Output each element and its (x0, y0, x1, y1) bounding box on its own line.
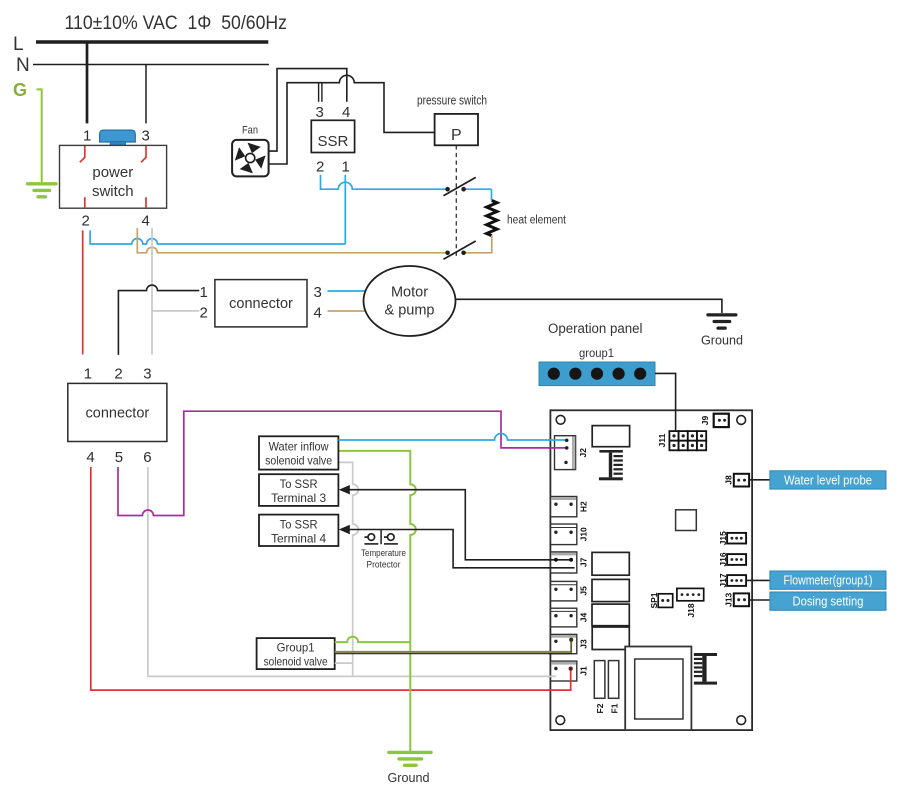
wire tail: blue into J2 pin 1 (549, 439, 567, 441)
svg-text:6: 6 (143, 449, 151, 466)
wire: L drop to power switch pin 1 (86, 42, 89, 123)
relay K1 (592, 426, 629, 447)
wire: G green drop to ground (37, 89, 42, 182)
pressure switch P body (435, 114, 478, 145)
svg-text:2: 2 (200, 304, 208, 321)
wire: fan upper terminal to SSR pin 4 loop (269, 69, 347, 152)
connector H2 (551, 497, 589, 517)
fan M1 (232, 140, 269, 177)
svg-text:4: 4 (314, 304, 322, 321)
svg-text:Water inflow: Water inflow (269, 440, 329, 454)
power switch S1 body (60, 145, 167, 208)
svg-text:Flowmeter(group1): Flowmeter(group1) (784, 574, 873, 588)
svg-text:J1: J1 (579, 666, 589, 676)
svg-text:heat element: heat element (507, 215, 567, 227)
svg-text:1: 1 (83, 128, 91, 145)
connector J5 (551, 581, 589, 601)
svg-text:J8: J8 (723, 475, 733, 485)
wire tail: black group1 header into J11 (675, 410, 677, 432)
arrow into To SSR terminal 4 (339, 525, 350, 534)
wire tail: red into J1 pin 2 (549, 669, 571, 691)
svg-text:1: 1 (200, 284, 208, 301)
wire: tan from power switch pin 4 to heat element switch (hops gray) (137, 228, 447, 253)
svg-text:F2: F2 (595, 703, 605, 713)
svg-text:connector: connector (229, 296, 293, 312)
svg-text:2: 2 (114, 366, 122, 383)
wire: olive from group1 valve to J3 (335, 651, 572, 653)
mounting hole top-right (737, 416, 746, 425)
svg-text:To SSR: To SSR (280, 477, 318, 491)
svg-text:Ground: Ground (701, 334, 743, 348)
svg-text:Temperature: Temperature (361, 548, 406, 559)
wire: blue from water inflow valve to J2 pin1 (hops purple) (338, 434, 556, 441)
pressure contact 2 (on tan wire) (444, 241, 476, 259)
svg-text:P: P (451, 127, 462, 144)
group1 solenoid valve box (257, 638, 335, 669)
wire: blue from power switch pin 2 to SSR pin 1 (hops tan and gray) (90, 230, 345, 244)
svg-text:3: 3 (314, 284, 322, 301)
svg-text:2: 2 (82, 213, 90, 230)
power switch rocker actuator (blue) (100, 130, 136, 146)
svg-text:Motor: Motor (391, 285, 428, 301)
connector J4 (551, 608, 589, 627)
transformer T1 (625, 647, 691, 731)
connector J18 (677, 588, 704, 617)
svg-text:J11: J11 (657, 433, 667, 447)
water level probe label box (770, 471, 886, 489)
svg-text:Protector: Protector (367, 560, 401, 571)
wire: blue connector pin3 to motor (328, 290, 367, 292)
svg-text:To SSR: To SSR (280, 518, 318, 532)
svg-text:F1: F1 (609, 703, 619, 713)
wire: blue SSR pin 2 to pressure switch contact (hop over pin1 wire) (321, 175, 448, 190)
heatsink (top) (599, 450, 623, 480)
wire: J8 to water level probe label (749, 479, 770, 481)
wire: gray from connector pin 6 to PCB J1 (148, 467, 556, 676)
wire: tan from heat element bottom to contact 2 (464, 235, 492, 253)
svg-text:solenoid valve: solenoid valve (265, 454, 332, 468)
operation panel PCB outline (550, 410, 752, 730)
ground symbol (left, green) (28, 184, 57, 197)
connector J8 (723, 474, 749, 487)
svg-text:Operation panel: Operation panel (548, 321, 643, 336)
wire: gray from water inflow valve down to J1 gray bus (hops black wires) (338, 462, 358, 676)
heatsink (bottom) (694, 653, 717, 685)
relay K4 (592, 604, 629, 626)
wire: L bus (36, 40, 268, 44)
wire: blue down to heat element (491, 189, 493, 200)
connector J7 (551, 552, 589, 573)
flowmeter(group1) label box (770, 571, 886, 589)
to SSR terminal 4 box (259, 515, 338, 546)
heat element R1 (487, 201, 497, 236)
to SSR terminal 3 box (259, 474, 338, 506)
wire: gray stub group1 valve to gray bus (335, 662, 353, 664)
IC U2 (676, 510, 697, 531)
svg-text:3: 3 (142, 128, 150, 145)
relay K2 (592, 552, 629, 575)
power switch contact marks (red) (80, 146, 146, 208)
ground symbol (bottom, green) (389, 752, 431, 765)
wire tail: black into J7 pin 1 (549, 559, 572, 561)
connector (6-pin) body (68, 383, 167, 441)
svg-text:pressure switch: pressure switch (417, 94, 487, 108)
wire: black to SSR terminal 4 from J7 (349, 530, 575, 568)
svg-text:SP1: SP1 (649, 592, 659, 608)
svg-text:J18: J18 (686, 603, 696, 617)
svg-text:2: 2 (316, 159, 324, 176)
svg-text:Dosing setting: Dosing setting (793, 595, 864, 609)
svg-text:SSR: SSR (317, 133, 348, 150)
svg-text:connector: connector (86, 406, 150, 422)
svg-text:J3: J3 (579, 639, 589, 649)
svg-text:3: 3 (316, 104, 324, 121)
connector J15 (718, 531, 746, 545)
wire: black connector pin1 loop (hops gray) (118, 285, 199, 355)
wire: N drop to power switch pin 3 (145, 65, 147, 124)
wire: green from group1 valve to ground wire (hops gray) (335, 637, 411, 642)
svg-text:4: 4 (142, 213, 150, 230)
mounting hole bottom-right (737, 716, 746, 725)
temperature protector TP1 (361, 530, 406, 571)
svg-text:group1: group1 (579, 346, 614, 360)
svg-text:& pump: & pump (385, 303, 435, 319)
svg-text:Water level probe: Water level probe (784, 473, 872, 487)
svg-text:1: 1 (342, 159, 350, 176)
connector J1 (551, 661, 589, 681)
SSR U1 body (311, 120, 354, 152)
wire: black group1 header to J11 (655, 373, 676, 431)
svg-text:N: N (16, 55, 30, 76)
svg-text:J2: J2 (578, 448, 588, 458)
wire: gray branch to connector pin2 (152, 310, 199, 312)
wire: red from power switch pin 2 down to connector pin 1 (82, 230, 84, 354)
wire: J17 to flowmeter label (746, 579, 770, 581)
connector J16 (718, 552, 746, 566)
svg-text:J5: J5 (579, 586, 589, 596)
svg-text:110±10% VAC 1Φ 50/60Hz: 110±10% VAC 1Φ 50/60Hz (65, 13, 288, 34)
fuse F1 (608, 661, 619, 714)
wire: red from connector pin 4 to PCB J1 (91, 467, 571, 690)
svg-text:switch: switch (92, 183, 134, 200)
wire: tan connector pin4 to motor (328, 310, 367, 312)
relay K3 (592, 579, 629, 601)
wire tail: gray into J1 pin 1 (549, 675, 556, 677)
wire tail: purple into J2 pin 2 (549, 447, 567, 449)
svg-text:Ground: Ground (388, 771, 430, 785)
connector J2 (555, 436, 589, 470)
svg-text:4: 4 (342, 104, 350, 121)
svg-text:Terminal 4: Terminal 4 (271, 532, 326, 546)
svg-text:solenoid valve: solenoid valve (264, 655, 328, 669)
motor & pump M2 (364, 266, 456, 336)
junction: J3 olive pin dot (569, 638, 573, 642)
mounting hole bottom-left (556, 716, 565, 725)
svg-text:Fan: Fan (242, 125, 258, 137)
junction: J1 red pin dot (569, 667, 573, 671)
wire: motor to right ground (455, 299, 722, 313)
SSR pin 3 stub (double wire) (318, 84, 320, 102)
ground symbol (right, black) (708, 315, 736, 328)
connector (motor) body (215, 280, 307, 327)
wire tail: black into J7 pin 2 (549, 567, 575, 569)
connector J17 (718, 573, 746, 587)
svg-text:G: G (13, 80, 27, 100)
group1 keypad header (blue with 5 buttons) (539, 362, 655, 386)
svg-text:L: L (13, 34, 24, 55)
wire: fan lower terminal to pressure switch (hop at SSR pin 4) (269, 75, 435, 164)
connector J10 (551, 524, 589, 545)
svg-text:J7: J7 (579, 557, 589, 567)
svg-text:3: 3 (143, 366, 151, 383)
wire tail: olive into J3 pin (549, 651, 573, 653)
connector SP1 (649, 592, 673, 608)
svg-text:Terminal 3: Terminal 3 (271, 491, 326, 505)
relay K5 (592, 627, 629, 650)
svg-text:J13: J13 (723, 592, 733, 606)
wire: purple from connector pin 5 to PCB J2 (hops gray) (118, 411, 557, 515)
wire: green from water inflow valve to bottom ground (hops black wires) (338, 451, 415, 752)
water inflow solenoid valve box (259, 436, 338, 469)
svg-text:Group1: Group1 (277, 641, 315, 655)
junction: J7 pin dots (554, 558, 558, 562)
wire: J13 to dosing setting label (749, 599, 770, 601)
wire: N bus (33, 64, 269, 66)
junction: J2 pin dots (565, 439, 568, 442)
svg-text:J4: J4 (579, 613, 589, 623)
wire: gray from power switch pin 4 down to connector pin 3 (151, 228, 153, 354)
fuse F2 (594, 661, 605, 714)
wire: black to SSR terminal 3 from J7 (349, 490, 571, 560)
svg-text:J10: J10 (579, 527, 589, 541)
dosing setting label box (770, 592, 886, 610)
arrow into To SSR terminal 3 (339, 485, 350, 494)
svg-text:J9: J9 (700, 416, 710, 426)
svg-text:1: 1 (84, 366, 92, 383)
connector J11 (2x4 header) (657, 431, 706, 450)
svg-text:power: power (92, 164, 133, 181)
svg-text:5: 5 (115, 449, 123, 466)
connector J3 (551, 634, 589, 653)
mounting hole top-left (556, 415, 565, 424)
wire: blue from SSR pin 1 vertical (344, 175, 346, 244)
connector J13 (723, 592, 749, 606)
svg-text:4: 4 (86, 449, 94, 466)
pressure switch actuating dashed link (455, 145, 457, 257)
connector J9 (700, 414, 729, 427)
pressure contact 1 (on blue wire) (444, 177, 492, 195)
svg-text:H2: H2 (579, 501, 589, 512)
